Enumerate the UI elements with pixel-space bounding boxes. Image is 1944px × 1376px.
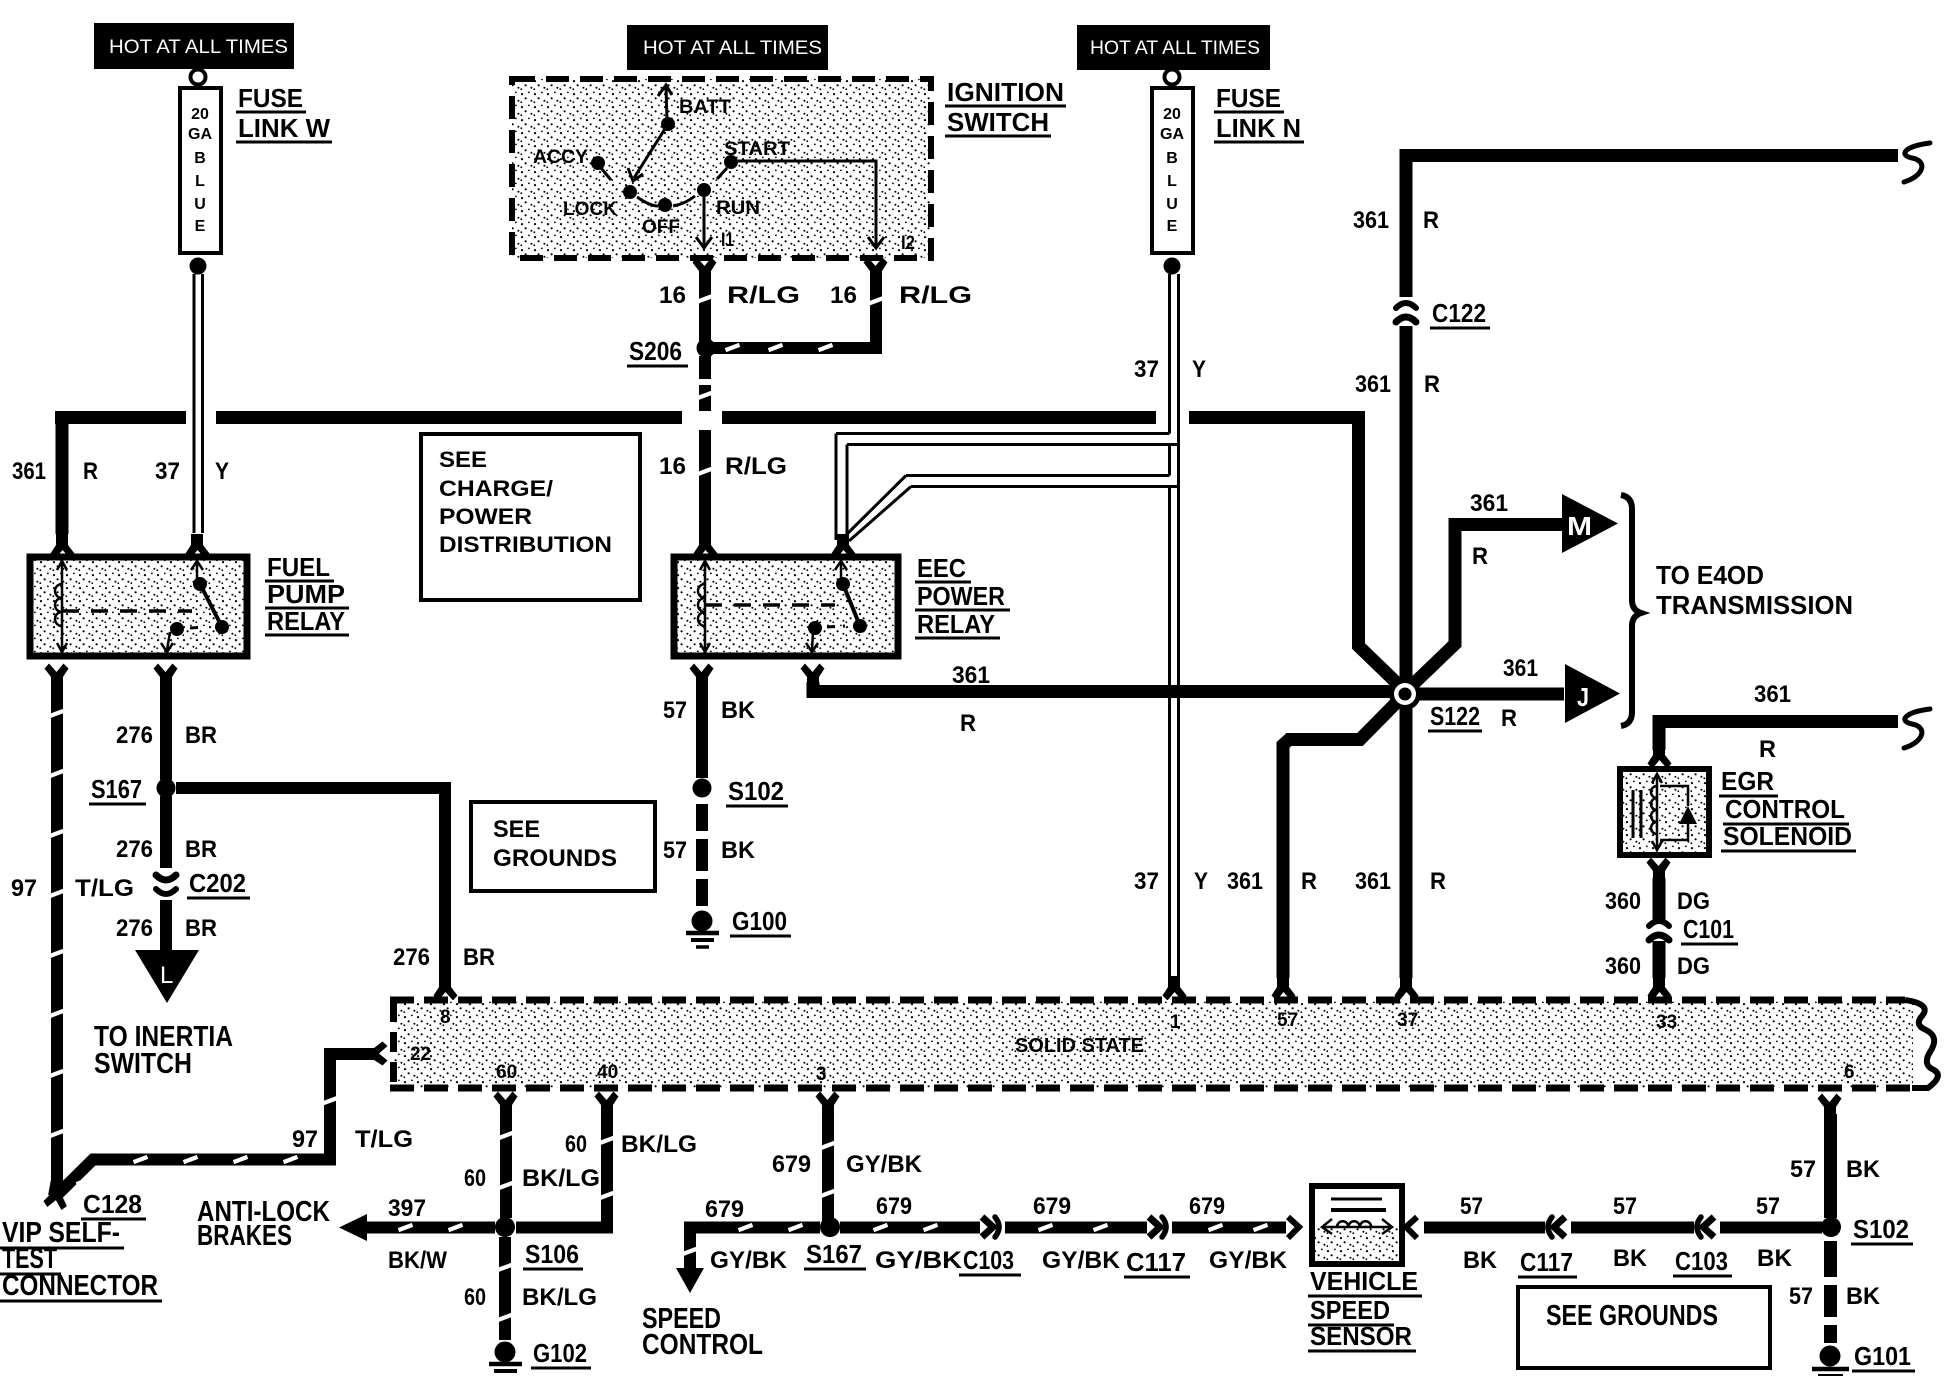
svg-text:R: R bbox=[1301, 868, 1317, 895]
svg-text:PUMP: PUMP bbox=[267, 579, 345, 609]
svg-text:Y: Y bbox=[1194, 868, 1208, 895]
svg-text:G101: G101 bbox=[1854, 1341, 1911, 1371]
svg-text:L: L bbox=[195, 173, 205, 190]
splice S122 bbox=[1389, 678, 1482, 731]
svg-text:R/LG: R/LG bbox=[899, 282, 972, 309]
svg-text:57: 57 bbox=[1277, 1010, 1298, 1031]
svg-text:BK/LG: BK/LG bbox=[522, 1284, 597, 1311]
arrow M to E4OD bbox=[1562, 494, 1618, 553]
label VIP SELF-TEST CONNECTOR bbox=[0, 1217, 162, 1302]
wire 361 R top right with page break squiggle bbox=[1353, 143, 1930, 234]
fuel pump relay bbox=[30, 557, 247, 656]
main bus horizontal (left of fuse-W wire) bbox=[55, 411, 186, 424]
svg-text:E: E bbox=[1167, 218, 1178, 235]
svg-text:BR: BR bbox=[185, 836, 217, 863]
svg-text:RELAY: RELAY bbox=[917, 609, 995, 639]
svg-text:VEHICLE: VEHICLE bbox=[1310, 1266, 1418, 1296]
see grounds box (middle) bbox=[471, 802, 655, 891]
hot-at-all-times banner 2 bbox=[627, 25, 828, 70]
svg-text:BK/W: BK/W bbox=[388, 1247, 447, 1274]
svg-text:FUSE: FUSE bbox=[1216, 83, 1281, 113]
svg-text:SWITCH: SWITCH bbox=[947, 107, 1049, 137]
svg-text:33: 33 bbox=[1656, 1012, 1677, 1033]
svg-text:R: R bbox=[83, 458, 98, 485]
ignition: wiper from BATT to LOCK bbox=[628, 124, 668, 181]
svg-text:LINK W: LINK W bbox=[238, 113, 330, 143]
svg-text:37: 37 bbox=[1134, 868, 1159, 895]
ignition: I1 drop from RUN bbox=[696, 197, 734, 251]
svg-text:R/LG: R/LG bbox=[725, 453, 787, 480]
ground G102 bbox=[489, 1338, 591, 1371]
wire 360 DG from EGR down bbox=[1605, 858, 1710, 921]
splice S206 bbox=[627, 336, 716, 366]
svg-text:60: 60 bbox=[464, 1165, 486, 1192]
fuel pump relay bottom-right wire 276 BR down to S167 bbox=[116, 664, 217, 781]
svg-text:BK: BK bbox=[1613, 1245, 1648, 1272]
label FUSE LINK W bbox=[236, 83, 332, 143]
thin wire branch A to EEC relay (upper) bbox=[836, 434, 1179, 541]
svg-text:BR: BR bbox=[463, 944, 495, 971]
ignition: RUN terminal bbox=[697, 183, 760, 219]
svg-text:BK: BK bbox=[1463, 1247, 1498, 1274]
svg-text:U: U bbox=[1166, 196, 1178, 213]
main bus horizontal (fuse-W to S206 wire) bbox=[216, 411, 682, 424]
svg-text:57: 57 bbox=[1790, 1156, 1816, 1183]
svg-text:37: 37 bbox=[1397, 1010, 1418, 1031]
svg-text:361: 361 bbox=[1754, 681, 1791, 708]
svg-text:G100: G100 bbox=[732, 906, 787, 936]
svg-text:97: 97 bbox=[292, 1126, 318, 1153]
wire 57 BK from C117 to C103 bbox=[1571, 1193, 1694, 1272]
svg-text:GA: GA bbox=[1160, 126, 1184, 143]
svg-text:R: R bbox=[960, 710, 976, 737]
svg-text:40: 40 bbox=[597, 1062, 618, 1083]
svg-text:R: R bbox=[1472, 543, 1488, 570]
wire 57 BK from C103 to S102 bbox=[1720, 1193, 1822, 1272]
see charge power distribution box bbox=[421, 434, 640, 600]
svg-text:S167: S167 bbox=[91, 774, 142, 804]
wire 60 BK/LG from solid state pin 60 down to S106 bbox=[464, 1092, 600, 1219]
svg-text:B: B bbox=[1166, 150, 1178, 167]
svg-text:57: 57 bbox=[1756, 1193, 1780, 1220]
svg-text:BK/LG: BK/LG bbox=[522, 1165, 600, 1192]
ignition: LOCK terminal bbox=[563, 185, 637, 220]
svg-text:S102: S102 bbox=[1853, 1214, 1909, 1244]
svg-text:RELAY: RELAY bbox=[267, 606, 345, 636]
wire 57 BK dashed from S102 down to G101 bbox=[1789, 1241, 1881, 1343]
svg-text:361: 361 bbox=[1353, 207, 1389, 234]
svg-text:57: 57 bbox=[663, 697, 687, 724]
ignition switch box bbox=[512, 79, 931, 258]
svg-text:CONTROL: CONTROL bbox=[642, 1329, 763, 1361]
svg-text:CHARGE/: CHARGE/ bbox=[439, 476, 553, 501]
bus right corner down toward S122 bbox=[1359, 418, 1406, 692]
wire 361 R to EGR with page break squiggle bbox=[1648, 681, 1931, 769]
svg-text:SOLENOID: SOLENOID bbox=[1723, 821, 1852, 851]
connector C117 (bottom run) bbox=[1124, 1217, 1190, 1277]
svg-text:361: 361 bbox=[1355, 371, 1391, 398]
svg-text:DISTRIBUTION: DISTRIBUTION bbox=[439, 532, 612, 557]
svg-text:R: R bbox=[1423, 207, 1439, 234]
wire 16 R/LG from I2 down and left to S206 bbox=[712, 258, 888, 351]
svg-text:S206: S206 bbox=[629, 336, 682, 366]
svg-text:679: 679 bbox=[705, 1196, 744, 1223]
wire from solid state pin 22 to VIP connector bbox=[56, 1042, 413, 1197]
connector C103 (right run, pointing left) bbox=[1673, 1217, 1732, 1276]
svg-text:T/LG: T/LG bbox=[355, 1126, 413, 1153]
svg-text:S106: S106 bbox=[525, 1239, 579, 1269]
svg-text:37: 37 bbox=[155, 458, 180, 485]
svg-text:60: 60 bbox=[464, 1284, 486, 1311]
wire 361 R to M arrow bbox=[1404, 490, 1564, 693]
svg-text:POWER: POWER bbox=[439, 504, 532, 529]
svg-text:BK: BK bbox=[1846, 1283, 1881, 1310]
wire 361 R from C122 down to S122 bbox=[1355, 326, 1440, 688]
svg-text:BK: BK bbox=[1846, 1156, 1881, 1183]
svg-text:8: 8 bbox=[440, 1007, 451, 1028]
svg-text:FUSE: FUSE bbox=[238, 83, 303, 113]
svg-text:LINK N: LINK N bbox=[1216, 113, 1301, 143]
svg-text:97: 97 bbox=[11, 875, 37, 902]
svg-text:CONTROL: CONTROL bbox=[1725, 794, 1845, 824]
connector C122 bbox=[1396, 298, 1490, 328]
svg-text:679: 679 bbox=[772, 1151, 811, 1178]
svg-text:679: 679 bbox=[1189, 1193, 1225, 1220]
svg-text:16: 16 bbox=[830, 282, 857, 309]
wire 679 GY/BK from S167 to C103 bbox=[840, 1193, 980, 1274]
see grounds box (bottom right) bbox=[1518, 1287, 1770, 1368]
svg-text:361: 361 bbox=[1470, 490, 1508, 517]
svg-text:OFF: OFF bbox=[642, 217, 680, 238]
svg-text:GY/BK: GY/BK bbox=[846, 1151, 923, 1178]
svg-text:1: 1 bbox=[1170, 1012, 1181, 1033]
ignition: START terminal bbox=[717, 139, 790, 179]
connector C101 bbox=[1649, 914, 1738, 944]
svg-text:360: 360 bbox=[1605, 953, 1641, 980]
wire 16 R/LG from S206 down to EEC relay bbox=[659, 356, 787, 559]
svg-text:BK/LG: BK/LG bbox=[621, 1131, 697, 1158]
svg-text:20: 20 bbox=[1163, 106, 1181, 123]
svg-text:60: 60 bbox=[496, 1062, 517, 1083]
svg-text:GROUNDS: GROUNDS bbox=[493, 845, 617, 872]
vehicle speed sensor bbox=[1312, 1186, 1402, 1264]
label VEHICLE SPEED SENSOR bbox=[1308, 1266, 1422, 1351]
EEC bottom-left wire 57 BK down to S102 bbox=[663, 664, 756, 779]
svg-text:T/LG: T/LG bbox=[75, 875, 134, 902]
label FUEL PUMP RELAY bbox=[265, 552, 349, 636]
EEC power relay bbox=[674, 557, 898, 656]
fuel pump relay bottom-left wire 97 T/LG down bbox=[11, 664, 134, 1197]
svg-text:B: B bbox=[194, 150, 206, 167]
label EGR CONTROL SOLENOID bbox=[1719, 766, 1856, 851]
svg-text:16: 16 bbox=[659, 453, 686, 480]
svg-text:R/LG: R/LG bbox=[727, 282, 800, 309]
brace to E4OD transmission bbox=[1621, 495, 1641, 726]
svg-text:276: 276 bbox=[116, 915, 153, 942]
wire 57 BK dashed from S102 to G100 bbox=[663, 804, 756, 906]
wire from S122 down-left to solid state pin 57 bbox=[1227, 699, 1400, 1001]
wire 361 R from S122 to J arrow bbox=[1412, 655, 1564, 732]
svg-text:3: 3 bbox=[816, 1064, 827, 1085]
svg-text:361: 361 bbox=[952, 662, 990, 689]
svg-text:57: 57 bbox=[663, 837, 687, 864]
wire 16 R/LG from I1 down to S206 bbox=[693, 258, 717, 342]
svg-text:361: 361 bbox=[1355, 868, 1391, 895]
svg-text:C117: C117 bbox=[1520, 1247, 1573, 1277]
svg-text:Y: Y bbox=[1192, 356, 1206, 383]
svg-text:SENSOR: SENSOR bbox=[1310, 1321, 1412, 1351]
ignition: I2 path from START bbox=[738, 161, 915, 254]
connector C128 bbox=[42, 1182, 146, 1219]
fuse link N bbox=[1152, 70, 1193, 275]
label SPEED CONTROL bbox=[642, 1303, 763, 1361]
svg-text:276: 276 bbox=[116, 722, 153, 749]
svg-text:GY/BK: GY/BK bbox=[875, 1247, 963, 1274]
wire 679 GY/BK from C103 to C117 bbox=[1005, 1193, 1147, 1274]
svg-text:276: 276 bbox=[393, 944, 430, 971]
svg-text:GY/BK: GY/BK bbox=[710, 1247, 788, 1274]
svg-text:CONNECTOR: CONNECTOR bbox=[2, 1270, 158, 1302]
svg-text:20: 20 bbox=[191, 106, 209, 123]
solid state module box bbox=[390, 1000, 1938, 1088]
svg-text:361: 361 bbox=[12, 458, 46, 485]
svg-text:361: 361 bbox=[1227, 868, 1263, 895]
svg-text:397: 397 bbox=[388, 1195, 426, 1222]
label TO E4OD TRANSMISSION bbox=[1656, 560, 1853, 620]
wire 397 BK/W from S106 left to anti-lock brakes arrow bbox=[339, 1195, 495, 1274]
svg-text:R: R bbox=[1501, 705, 1517, 732]
svg-text:LOCK: LOCK bbox=[563, 199, 617, 220]
svg-text:22: 22 bbox=[410, 1044, 431, 1065]
svg-text:HOT AT ALL TIMES: HOT AT ALL TIMES bbox=[1090, 38, 1260, 59]
svg-text:M: M bbox=[1567, 511, 1592, 541]
ignition: dashed arc LOCK-OFF-RUN bbox=[637, 196, 695, 206]
svg-text:SEE: SEE bbox=[493, 816, 540, 843]
svg-text:57: 57 bbox=[1460, 1193, 1483, 1220]
splice S167 (upper) bbox=[89, 774, 176, 804]
svg-text:U: U bbox=[194, 196, 206, 213]
splice S102 (middle) bbox=[693, 776, 789, 806]
svg-text:276: 276 bbox=[116, 836, 153, 863]
svg-text:EEC: EEC bbox=[917, 553, 966, 583]
label IGNITION SWITCH bbox=[945, 77, 1066, 137]
wire 361 R from corner down to C122 bbox=[1400, 149, 1413, 297]
svg-text:EGR: EGR bbox=[1721, 766, 1774, 796]
svg-text:C122: C122 bbox=[1432, 298, 1486, 328]
svg-text:GY/BK: GY/BK bbox=[1042, 1247, 1121, 1274]
svg-text:S122: S122 bbox=[1430, 701, 1480, 731]
wire 679 GY/BK speed control branch bbox=[676, 1196, 820, 1293]
main bus horizontal (fuse-N wire to right corner) bbox=[1189, 411, 1365, 424]
svg-text:R: R bbox=[1424, 371, 1440, 398]
ignition: BATT terminal bbox=[658, 85, 731, 131]
svg-text:J: J bbox=[1577, 682, 1589, 712]
svg-text:FUEL: FUEL bbox=[267, 552, 330, 582]
svg-text:SEE GROUNDS: SEE GROUNDS bbox=[1546, 1300, 1718, 1332]
wire thin double from fuse W down to fuel pump relay bbox=[186, 274, 210, 559]
label ANTI-LOCK BRAKES bbox=[197, 1196, 330, 1252]
label FUSE LINK N bbox=[1214, 83, 1304, 143]
wire 60 BK/LG from S106 down to G102 bbox=[464, 1237, 597, 1340]
svg-text:SEE: SEE bbox=[439, 447, 487, 472]
ignition: ACCY terminal bbox=[533, 147, 611, 180]
svg-text:BK: BK bbox=[1757, 1245, 1793, 1272]
svg-text:L: L bbox=[160, 962, 173, 989]
label EEC POWER RELAY bbox=[915, 553, 1010, 639]
svg-text:IGNITION: IGNITION bbox=[947, 77, 1064, 107]
hot-at-all-times banner 1 bbox=[94, 23, 294, 69]
splice S102 (right) bbox=[1821, 1214, 1913, 1244]
svg-text:GY/BK: GY/BK bbox=[1209, 1247, 1288, 1274]
svg-text:G102: G102 bbox=[533, 1338, 587, 1368]
arrow J to E4OD bbox=[1565, 664, 1620, 723]
svg-text:BATT: BATT bbox=[679, 97, 731, 118]
wire 60 BK/LG from solid state pin 40 down then left to S106 bbox=[516, 1092, 697, 1228]
svg-text:C117: C117 bbox=[1126, 1247, 1186, 1277]
svg-text:RUN: RUN bbox=[716, 198, 760, 219]
EGR control solenoid bbox=[1620, 769, 1709, 855]
wire 57 BK from speed sensor to C117 bbox=[1406, 1193, 1545, 1274]
svg-text:57: 57 bbox=[1789, 1283, 1813, 1310]
wire 276 BR from C202 to inertia arrow bbox=[116, 900, 217, 952]
svg-text:E: E bbox=[195, 218, 206, 235]
splice S167 (lower) bbox=[804, 1217, 866, 1269]
svg-text:BR: BR bbox=[185, 915, 217, 942]
arrow L to inertia switch bbox=[94, 950, 233, 1080]
svg-text:R: R bbox=[1759, 736, 1776, 763]
thin wire branch B to EEC relay (lower, diagonal) bbox=[832, 476, 1179, 559]
svg-text:C103: C103 bbox=[963, 1245, 1014, 1275]
wire 679 GY/BK from solid state pin 3 down to S167 bbox=[772, 1092, 923, 1223]
connector C117 (right run, pointing left) bbox=[1518, 1217, 1577, 1277]
svg-text:TO E4OD: TO E4OD bbox=[1656, 560, 1764, 590]
wire 57 BK from solid state pin 6 down to S102 bbox=[1790, 1094, 1881, 1219]
svg-text:C128: C128 bbox=[83, 1189, 142, 1219]
bus left corner down to fuel pump relay bbox=[12, 424, 229, 559]
ground G100 bbox=[686, 906, 791, 947]
splice S106 bbox=[495, 1217, 583, 1269]
svg-text:SOLID STATE: SOLID STATE bbox=[1015, 1035, 1144, 1057]
svg-text:HOT AT ALL TIMES: HOT AT ALL TIMES bbox=[643, 38, 822, 59]
ignition: OFF terminal bbox=[642, 198, 680, 238]
svg-text:L: L bbox=[1167, 173, 1177, 190]
svg-text:361: 361 bbox=[1503, 655, 1538, 682]
svg-text:BRAKES: BRAKES bbox=[197, 1220, 292, 1252]
wire from S122 down to solid state pin 37 bbox=[1355, 706, 1446, 1001]
svg-text:57: 57 bbox=[1613, 1193, 1637, 1220]
EEC bottom-right wire 361 R to S122 bbox=[801, 662, 1400, 737]
svg-text:6: 6 bbox=[1844, 1062, 1855, 1083]
svg-text:SWITCH: SWITCH bbox=[94, 1048, 192, 1080]
main bus horizontal (S206 wire to fuse-N wire) bbox=[722, 411, 1156, 424]
svg-text:C101: C101 bbox=[1683, 914, 1734, 944]
svg-text:BK: BK bbox=[721, 837, 756, 864]
svg-text:DG: DG bbox=[1677, 953, 1710, 980]
svg-text:Y: Y bbox=[215, 458, 229, 485]
connector C202 bbox=[156, 868, 250, 898]
svg-text:TRANSMISSION: TRANSMISSION bbox=[1656, 590, 1853, 620]
wire 679 GY/BK from C117 to speed sensor bbox=[1172, 1193, 1299, 1274]
ground G101 bbox=[1812, 1341, 1915, 1376]
hot-at-all-times banner 3 bbox=[1077, 25, 1270, 70]
fuse link W bbox=[180, 70, 221, 275]
wire 276 BR from S167 down to C202 bbox=[116, 796, 217, 868]
svg-text:DG: DG bbox=[1677, 888, 1710, 915]
svg-text:BR: BR bbox=[185, 722, 217, 749]
svg-text:BK: BK bbox=[721, 697, 756, 724]
svg-text:ACCY: ACCY bbox=[533, 147, 588, 168]
svg-text:360: 360 bbox=[1605, 888, 1641, 915]
svg-text:60: 60 bbox=[565, 1131, 587, 1158]
svg-text:HOT AT ALL TIMES: HOT AT ALL TIMES bbox=[109, 37, 288, 58]
svg-text:16: 16 bbox=[659, 282, 686, 309]
svg-text:679: 679 bbox=[1033, 1193, 1071, 1220]
svg-text:C103: C103 bbox=[1675, 1246, 1728, 1276]
svg-text:S167: S167 bbox=[806, 1239, 862, 1269]
svg-text:POWER: POWER bbox=[917, 581, 1005, 611]
connector C103 (bottom run) bbox=[959, 1217, 1021, 1275]
svg-text:I1: I1 bbox=[721, 230, 734, 251]
svg-text:679: 679 bbox=[876, 1193, 912, 1220]
svg-text:GA: GA bbox=[188, 126, 212, 143]
wire 360 DG from C101 to solid state pin 33 bbox=[1605, 941, 1710, 1001]
svg-text:I2: I2 bbox=[901, 233, 915, 254]
svg-text:R: R bbox=[1430, 868, 1446, 895]
svg-text:37: 37 bbox=[1134, 356, 1159, 383]
wire thin double from fuse N down (circuit 37 Y) to solid state pin 1 bbox=[1134, 274, 1208, 1001]
wire from S167 right then down to solid state pin 8 bbox=[176, 788, 495, 1001]
svg-text:S102: S102 bbox=[728, 776, 784, 806]
labels 16 R/LG below ignition switch bbox=[659, 282, 972, 309]
svg-text:C202: C202 bbox=[189, 868, 246, 898]
